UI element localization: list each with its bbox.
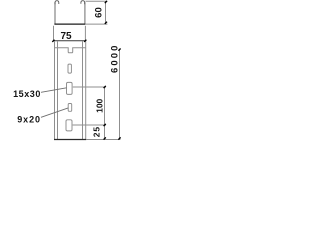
svg-text:60: 60 [94, 7, 105, 18]
svg-text:25: 25 [91, 126, 101, 137]
svg-text:15x30: 15x30 [13, 89, 41, 99]
svg-text:6000: 6000 [109, 43, 120, 73]
svg-text:100: 100 [95, 98, 105, 112]
svg-text:75: 75 [60, 31, 72, 42]
svg-text:9x20: 9x20 [17, 114, 41, 124]
